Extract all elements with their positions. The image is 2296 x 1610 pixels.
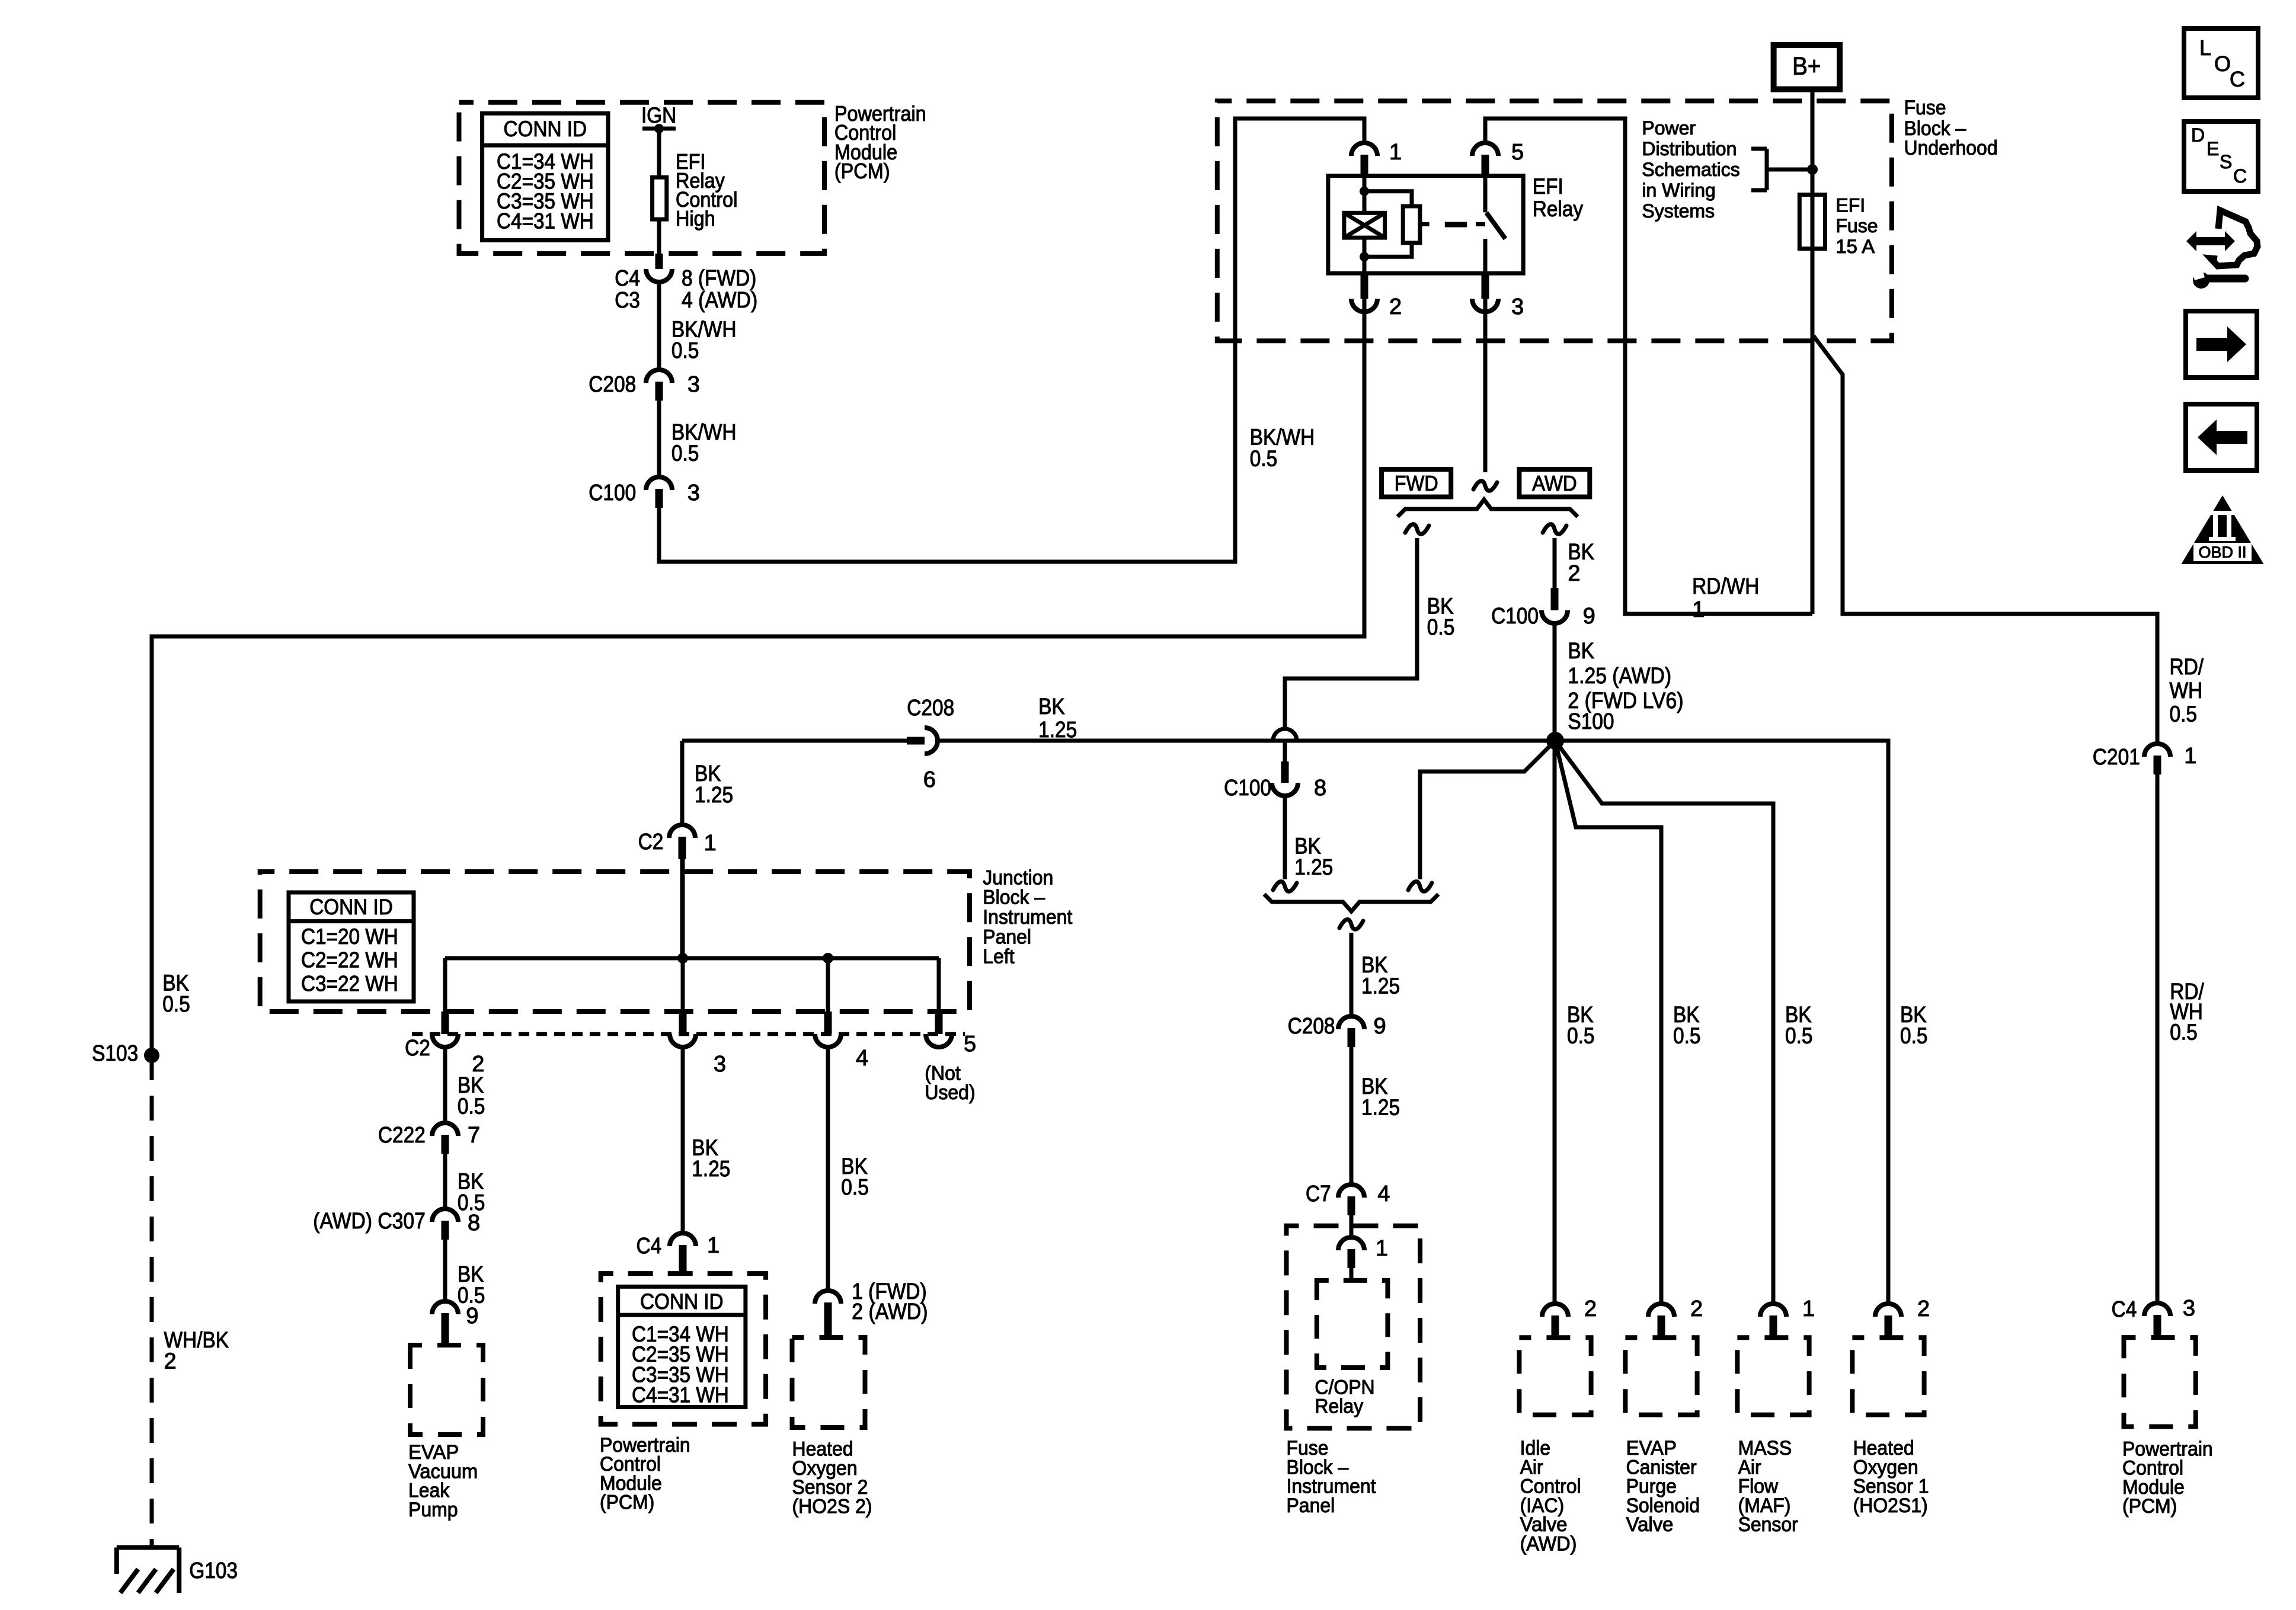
svg-text:3: 3 (687, 372, 700, 397)
svg-text:1: 1 (707, 1233, 720, 1258)
svg-text:C: C (2230, 67, 2245, 91)
svg-text:4: 4 (856, 1046, 868, 1071)
svg-text:4: 4 (1377, 1182, 1390, 1206)
svg-text:0.5: 0.5 (1900, 1024, 1928, 1049)
svg-text:C100: C100 (589, 481, 636, 505)
svg-text:1: 1 (704, 831, 717, 856)
svg-text:C208: C208 (1288, 1014, 1335, 1039)
svg-text:0.5: 0.5 (1427, 615, 1455, 640)
svg-text:1: 1 (1389, 140, 1402, 165)
svg-text:2: 2 (1389, 295, 1402, 319)
svg-text:FWD: FWD (1395, 471, 1438, 495)
svg-text:High: High (676, 206, 715, 231)
svg-text:C2: C2 (405, 1036, 430, 1061)
svg-text:WH: WH (2170, 678, 2203, 703)
svg-text:0.5: 0.5 (1673, 1024, 1701, 1049)
svg-text:C4: C4 (615, 266, 640, 291)
svg-text:C4: C4 (2112, 1297, 2137, 1322)
svg-text:2: 2 (1584, 1297, 1597, 1321)
svg-text:2: 2 (164, 1349, 177, 1374)
svg-text:Systems: Systems (1642, 200, 1715, 222)
svg-text:Sensor: Sensor (1738, 1513, 1798, 1536)
svg-text:0.5: 0.5 (671, 441, 699, 466)
svg-text:D: D (2191, 124, 2205, 146)
svg-text:E: E (2207, 138, 2219, 159)
svg-text:S: S (2220, 151, 2232, 172)
svg-text:0.5: 0.5 (1785, 1024, 1813, 1049)
svg-text:Instrument: Instrument (983, 906, 1073, 929)
svg-text:Pump: Pump (408, 1499, 458, 1521)
svg-text:C100: C100 (1224, 776, 1271, 801)
svg-text:1.25: 1.25 (1294, 855, 1333, 880)
svg-text:CONN ID: CONN ID (640, 1289, 724, 1314)
svg-text:(PCM): (PCM) (600, 1491, 654, 1514)
svg-text:BK: BK (1568, 639, 1594, 664)
svg-text:in Wiring: in Wiring (1642, 180, 1715, 201)
svg-text:2: 2 (1690, 1297, 1703, 1321)
svg-text:Left: Left (983, 946, 1015, 968)
svg-text:C222: C222 (378, 1123, 426, 1148)
svg-text:C2=22 WH: C2=22 WH (301, 948, 398, 972)
svg-text:C3=22 WH: C3=22 WH (301, 971, 398, 996)
svg-text:4 (AWD): 4 (AWD) (682, 288, 757, 313)
svg-text:C4=31 WH: C4=31 WH (632, 1383, 729, 1407)
svg-text:Fuse: Fuse (1904, 97, 1946, 119)
svg-text:1: 1 (1802, 1297, 1815, 1321)
svg-text:IGN: IGN (641, 103, 676, 127)
svg-text:Relay: Relay (1533, 197, 1584, 221)
svg-text:2: 2 (1917, 1297, 1930, 1321)
svg-text:L: L (2199, 36, 2211, 60)
svg-text:B+: B+ (1792, 52, 1821, 81)
svg-text:0.5: 0.5 (1250, 447, 1278, 472)
svg-text:S100: S100 (1568, 709, 1614, 734)
svg-text:0.5: 0.5 (671, 338, 699, 363)
svg-text:(PCM): (PCM) (834, 159, 890, 183)
svg-text:C: C (2233, 165, 2247, 187)
svg-text:1.25: 1.25 (695, 783, 733, 808)
svg-text:0.5: 0.5 (458, 1094, 485, 1119)
svg-text:1: 1 (1376, 1236, 1388, 1261)
svg-text:1.25: 1.25 (1361, 1096, 1400, 1121)
svg-text:O: O (2214, 52, 2231, 76)
svg-text:0.5: 0.5 (2170, 702, 2198, 727)
svg-text:0.5: 0.5 (1567, 1024, 1595, 1049)
svg-text:8: 8 (1314, 776, 1326, 801)
svg-text:15 A: 15 A (1835, 236, 1875, 257)
svg-text:C208: C208 (907, 696, 954, 721)
svg-text:1.25: 1.25 (1361, 974, 1400, 999)
svg-text:C4: C4 (637, 1234, 662, 1259)
svg-text:Schematics: Schematics (1642, 159, 1739, 180)
svg-text:0.5: 0.5 (841, 1175, 869, 1200)
svg-text:C208: C208 (589, 372, 636, 397)
svg-text:Panel: Panel (1287, 1494, 1335, 1517)
svg-text:0.5: 0.5 (162, 992, 190, 1017)
svg-text:Junction: Junction (983, 866, 1053, 889)
svg-text:Block –: Block – (983, 886, 1045, 909)
svg-text:Relay: Relay (1315, 1395, 1363, 1418)
svg-text:Used): Used) (925, 1081, 975, 1104)
svg-text:C7: C7 (1306, 1182, 1331, 1206)
svg-text:8: 8 (468, 1211, 480, 1235)
svg-text:C1=20 WH: C1=20 WH (301, 924, 398, 949)
svg-text:C3: C3 (615, 288, 640, 313)
svg-text:RD/: RD/ (2170, 655, 2204, 680)
svg-text:1.25 (AWD): 1.25 (AWD) (1568, 664, 1671, 689)
svg-text:(AWD): (AWD) (1520, 1533, 1577, 1555)
svg-text:(HO2S1): (HO2S1) (1853, 1494, 1928, 1517)
svg-text:3: 3 (687, 481, 700, 505)
svg-text:3: 3 (714, 1052, 726, 1077)
svg-text:0.5: 0.5 (2170, 1020, 2198, 1045)
svg-text:BK: BK (1038, 694, 1065, 719)
svg-text:2: 2 (1568, 561, 1580, 586)
svg-text:5: 5 (964, 1032, 976, 1057)
svg-text:1.25: 1.25 (692, 1157, 730, 1182)
svg-text:CONN ID: CONN ID (309, 895, 393, 919)
svg-text:OBD II: OBD II (2198, 543, 2246, 561)
svg-text:C2: C2 (638, 830, 664, 854)
svg-text:C100: C100 (1491, 604, 1539, 629)
svg-text:EFI: EFI (1835, 195, 1865, 216)
svg-text:Valve: Valve (1626, 1513, 1674, 1536)
svg-text:5: 5 (1511, 140, 1524, 165)
svg-text:1.25: 1.25 (1038, 718, 1077, 742)
svg-text:8 (FWD): 8 (FWD) (682, 266, 756, 291)
svg-text:EFI: EFI (1533, 174, 1563, 199)
svg-text:Underhood: Underhood (1904, 137, 1998, 159)
svg-text:(HO2S 2): (HO2S 2) (792, 1496, 872, 1518)
svg-text:S103: S103 (92, 1041, 138, 1066)
svg-text:1: 1 (2184, 744, 2196, 769)
svg-text:(AWD) C307: (AWD) C307 (313, 1209, 426, 1234)
svg-text:(PCM): (PCM) (2122, 1495, 2177, 1518)
svg-text:Power: Power (1642, 117, 1696, 139)
svg-text:1: 1 (1692, 597, 1705, 622)
svg-text:C201: C201 (2093, 745, 2140, 770)
svg-text:AWD: AWD (1532, 471, 1577, 495)
svg-text:Panel: Panel (983, 926, 1031, 948)
svg-text:3: 3 (1511, 295, 1524, 319)
svg-text:2 (AWD): 2 (AWD) (852, 1299, 928, 1324)
svg-text:C4=31 WH: C4=31 WH (497, 209, 594, 233)
svg-text:6: 6 (923, 767, 936, 792)
svg-text:7: 7 (468, 1123, 480, 1148)
svg-text:9: 9 (1583, 604, 1595, 629)
svg-text:Fuse: Fuse (1835, 215, 1878, 236)
svg-text:Distribution: Distribution (1642, 138, 1737, 159)
svg-text:9: 9 (466, 1304, 478, 1329)
svg-text:G103: G103 (189, 1558, 238, 1583)
svg-text:RD/WH: RD/WH (1692, 574, 1759, 599)
svg-text:9: 9 (1374, 1014, 1386, 1039)
svg-text:3: 3 (2183, 1296, 2195, 1321)
svg-text:CONN ID: CONN ID (504, 117, 587, 141)
